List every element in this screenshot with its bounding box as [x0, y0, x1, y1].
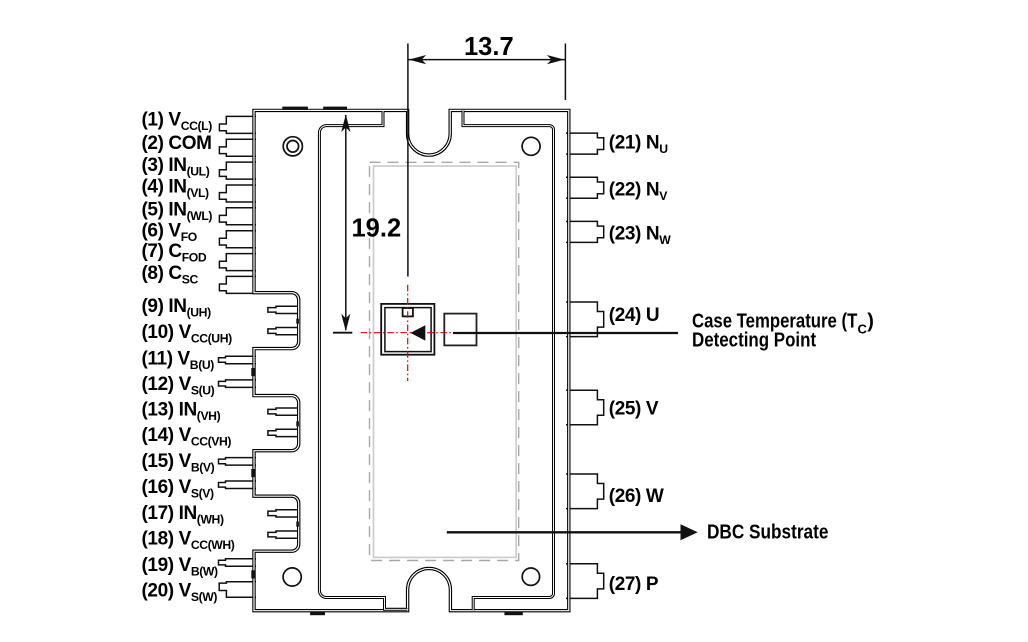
- mounting hole top-left (ring): [283, 137, 302, 156]
- mounting hole top-right: [522, 137, 540, 155]
- case temperature pointer line: [453, 332, 678, 334]
- DBC substrate dashed boundary rect: [370, 162, 519, 560]
- case lid step outline left: [319, 111, 407, 609]
- pin 7 lead: [219, 254, 256, 271]
- case lid step outline right: [463, 111, 554, 611]
- svg-text:(2) COM: (2) COM: [142, 133, 212, 154]
- svg-text:Detecting Point: Detecting Point: [692, 330, 816, 352]
- pin 27 lead: [566, 564, 604, 599]
- IC chip outline (outer): [381, 304, 434, 355]
- right extension line: [564, 44, 566, 101]
- mold tab bottom 1: [310, 612, 325, 615]
- pin 23 lead: [566, 221, 604, 242]
- gate mark between pins 11/12: [251, 368, 255, 376]
- pin 4 lead: [219, 185, 256, 202]
- pin 2 lead: [219, 139, 256, 156]
- pin 12 lead: [219, 380, 257, 388]
- pin 10 lead: [268, 328, 300, 335]
- DBC substrate solid gray rect: [374, 166, 517, 557]
- svg-text:13.7: 13.7: [464, 33, 514, 61]
- pin 22 lead: [566, 177, 604, 198]
- svg-text:C: C: [858, 321, 868, 336]
- svg-text:(27) P: (27) P: [609, 574, 659, 595]
- mounting hole bottom-left: [283, 568, 301, 586]
- gate mark between pins 19/20: [251, 570, 255, 578]
- gate mark bay3 wall: [296, 522, 299, 527]
- svg-text:(25) V: (25) V: [609, 398, 659, 419]
- pin 25 lead: [566, 390, 604, 425]
- svg-text:(26) W: (26) W: [609, 486, 664, 507]
- svg-text:(24) U: (24) U: [609, 305, 659, 326]
- DBC substrate arrowhead: [681, 524, 698, 540]
- pin 8 lead: [219, 276, 256, 293]
- mounting hole bottom-right: [522, 568, 539, 585]
- mold tab top 1: [282, 107, 308, 110]
- svg-text:DBC Substrate: DBC Substrate: [707, 522, 828, 544]
- vertical extension line (package center): [407, 44, 409, 277]
- pin 6 lead: [219, 231, 256, 248]
- tick at chip centerline: [333, 332, 352, 334]
- pin 13 lead: [268, 408, 300, 415]
- DBC substrate pointer line: [447, 531, 681, 533]
- pin 5 lead: [219, 208, 256, 225]
- svg-text:19.2: 19.2: [352, 215, 402, 243]
- pin 15 lead: [219, 458, 257, 466]
- red centerline horizontal: [361, 332, 453, 334]
- pin 19 lead: [219, 559, 257, 567]
- pin 17 lead: [268, 510, 300, 517]
- pin 1 lead: [219, 116, 256, 133]
- mold tab top 2: [323, 107, 347, 110]
- dimension line 19.2: [345, 115, 347, 330]
- mold tab bottom 2: [504, 612, 522, 615]
- pin 11 lead: [219, 356, 257, 364]
- gate mark bay2 wall: [296, 421, 299, 426]
- gate mark bay1 wall: [296, 319, 299, 324]
- pin 14 lead: [268, 429, 300, 436]
- pin 21 lead: [566, 133, 604, 154]
- red centerline vertical: [407, 285, 409, 381]
- pin 24 lead: [566, 302, 604, 337]
- pin 9 lead: [268, 306, 300, 313]
- IC chip outline (inner): [385, 308, 431, 352]
- svg-text:): ): [867, 311, 874, 333]
- thermistor square: [444, 314, 476, 346]
- pin 18 lead: [268, 531, 300, 538]
- dimension line 13.7: [408, 59, 566, 61]
- small pad on chip: [403, 308, 413, 316]
- module case outline: [254, 110, 569, 610]
- case temperature arrowhead: [410, 325, 425, 340]
- pin 16 lead: [219, 481, 257, 489]
- pin 20 lead: [219, 582, 256, 598]
- gate mark between pins 15/16: [251, 469, 255, 477]
- pin 3 lead: [219, 162, 256, 179]
- pin 26 lead: [566, 474, 604, 509]
